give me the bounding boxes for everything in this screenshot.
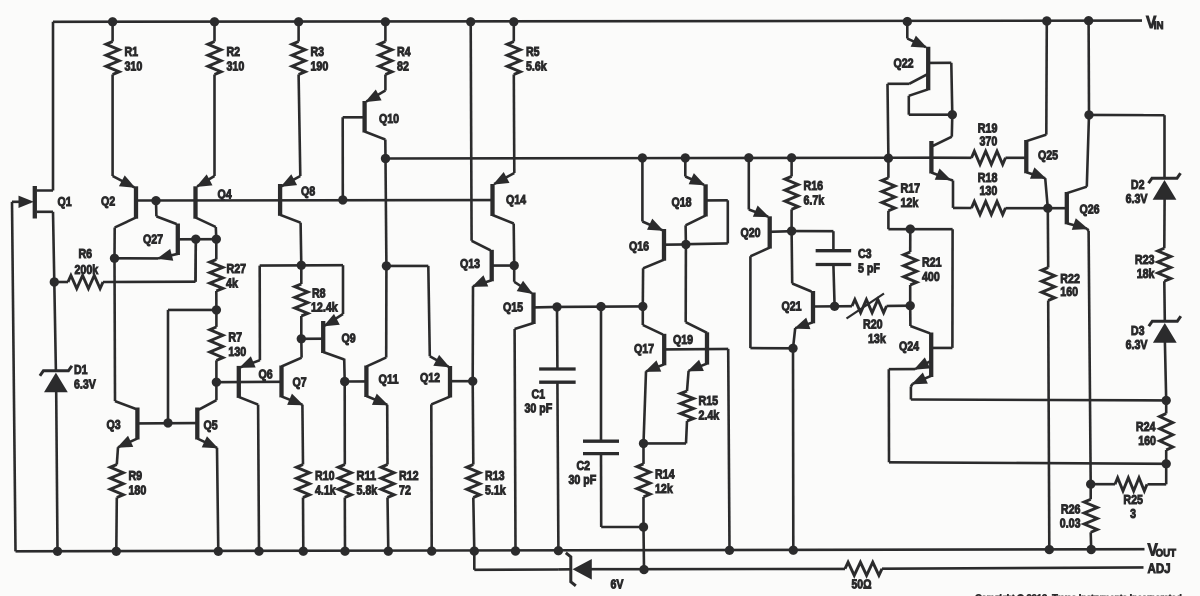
svg-text:18k: 18k [1137, 266, 1155, 281]
svg-text:Q17: Q17 [634, 341, 654, 356]
svg-text:82: 82 [397, 59, 409, 74]
svg-text:Q3: Q3 [107, 417, 121, 432]
svg-text:Q20: Q20 [741, 225, 761, 240]
svg-text:Q19: Q19 [673, 332, 693, 347]
svg-text:12.4k: 12.4k [311, 300, 338, 315]
svg-text:0.03: 0.03 [1060, 516, 1081, 531]
svg-text:190: 190 [311, 59, 329, 74]
svg-text:30 pF: 30 pF [525, 401, 553, 416]
svg-text:6V: 6V [611, 577, 624, 592]
svg-text:4.1k: 4.1k [315, 483, 336, 498]
svg-text:Q1: Q1 [58, 194, 72, 209]
svg-text:C2: C2 [577, 458, 591, 473]
svg-text:72: 72 [399, 483, 411, 498]
svg-text:Q26: Q26 [1080, 202, 1100, 217]
svg-text:R4: R4 [397, 44, 411, 59]
svg-text:R8: R8 [312, 286, 326, 301]
svg-text:Q27: Q27 [143, 232, 163, 247]
svg-text:Q11: Q11 [379, 372, 399, 387]
svg-text:Q18: Q18 [672, 195, 692, 210]
svg-text:Q5: Q5 [204, 418, 218, 433]
svg-text:R20: R20 [863, 317, 883, 332]
svg-text:Q6: Q6 [259, 367, 273, 382]
svg-text:Q13: Q13 [460, 256, 480, 271]
svg-text:Q14: Q14 [506, 192, 527, 207]
svg-text:310: 310 [125, 59, 143, 74]
svg-text:Q15: Q15 [503, 300, 523, 315]
svg-text:R9: R9 [129, 468, 143, 483]
svg-text:R6: R6 [79, 246, 93, 261]
svg-text:180: 180 [129, 483, 147, 498]
svg-text:4k: 4k [226, 275, 239, 290]
svg-text:160: 160 [1138, 433, 1156, 448]
svg-text:Q21: Q21 [782, 299, 802, 314]
svg-text:370: 370 [980, 133, 998, 148]
svg-text:5.6k: 5.6k [526, 59, 547, 74]
svg-text:R24: R24 [1136, 419, 1156, 434]
svg-text:ADJ: ADJ [1148, 560, 1171, 576]
svg-text:R25: R25 [1123, 492, 1143, 507]
svg-text:R7: R7 [228, 330, 242, 345]
svg-text:R10: R10 [315, 468, 335, 483]
svg-text:310: 310 [227, 59, 245, 74]
svg-text:D3: D3 [1131, 323, 1145, 338]
svg-text:R27: R27 [227, 261, 247, 276]
svg-text:160: 160 [1060, 284, 1078, 299]
svg-text:50Ω: 50Ω [852, 577, 872, 592]
svg-text:400: 400 [922, 269, 940, 284]
svg-text:OUT: OUT [1156, 548, 1177, 560]
svg-text:R17: R17 [901, 181, 921, 196]
svg-text:R23: R23 [1135, 252, 1155, 267]
svg-text:Q12: Q12 [420, 370, 440, 385]
svg-text:R12: R12 [399, 468, 419, 483]
svg-text:R2: R2 [227, 44, 241, 59]
svg-text:Q8: Q8 [301, 184, 315, 199]
svg-text:R15: R15 [699, 393, 719, 408]
svg-text:30 pF: 30 pF [569, 472, 597, 487]
svg-text:Q4: Q4 [218, 187, 233, 202]
svg-text:Q24: Q24 [899, 339, 920, 354]
svg-text:R11: R11 [357, 468, 377, 483]
svg-text:3: 3 [1130, 506, 1136, 521]
svg-text:R3: R3 [311, 44, 325, 59]
svg-text:5.1k: 5.1k [485, 483, 506, 498]
svg-text:IN: IN [1154, 20, 1164, 32]
svg-text:5.8k: 5.8k [357, 483, 378, 498]
svg-text:6.7k: 6.7k [804, 193, 825, 208]
svg-text:Q16: Q16 [629, 239, 649, 254]
svg-text:R26: R26 [1061, 502, 1081, 517]
svg-text:Q9: Q9 [342, 331, 356, 346]
svg-text:C3: C3 [858, 246, 872, 261]
svg-text:13k: 13k [868, 331, 886, 346]
svg-text:Q22: Q22 [894, 56, 914, 71]
svg-text:130: 130 [228, 344, 246, 359]
svg-text:R16: R16 [804, 178, 824, 193]
svg-text:6.3V: 6.3V [74, 377, 96, 392]
svg-text:12k: 12k [655, 481, 673, 496]
svg-text:R14: R14 [655, 467, 675, 482]
svg-text:2.4k: 2.4k [699, 408, 720, 423]
svg-text:6.3V: 6.3V [1126, 191, 1148, 206]
svg-text:200k: 200k [75, 262, 99, 277]
svg-text:Q25: Q25 [1038, 148, 1058, 163]
svg-text:R21: R21 [922, 255, 942, 270]
svg-text:Q10: Q10 [379, 111, 399, 126]
svg-text:D2: D2 [1131, 177, 1145, 192]
svg-text:C1: C1 [532, 387, 546, 402]
svg-text:130: 130 [980, 183, 998, 198]
svg-text:R5: R5 [526, 44, 540, 59]
svg-text:5 pF: 5 pF [858, 261, 880, 276]
svg-text:Q2: Q2 [101, 194, 115, 209]
svg-text:Q7: Q7 [293, 375, 307, 390]
svg-text:12k: 12k [901, 195, 919, 210]
svg-text:R1: R1 [125, 44, 139, 59]
svg-text:D1: D1 [74, 362, 88, 377]
svg-text:6.3V: 6.3V [1126, 337, 1148, 352]
svg-text:R13: R13 [485, 468, 505, 483]
